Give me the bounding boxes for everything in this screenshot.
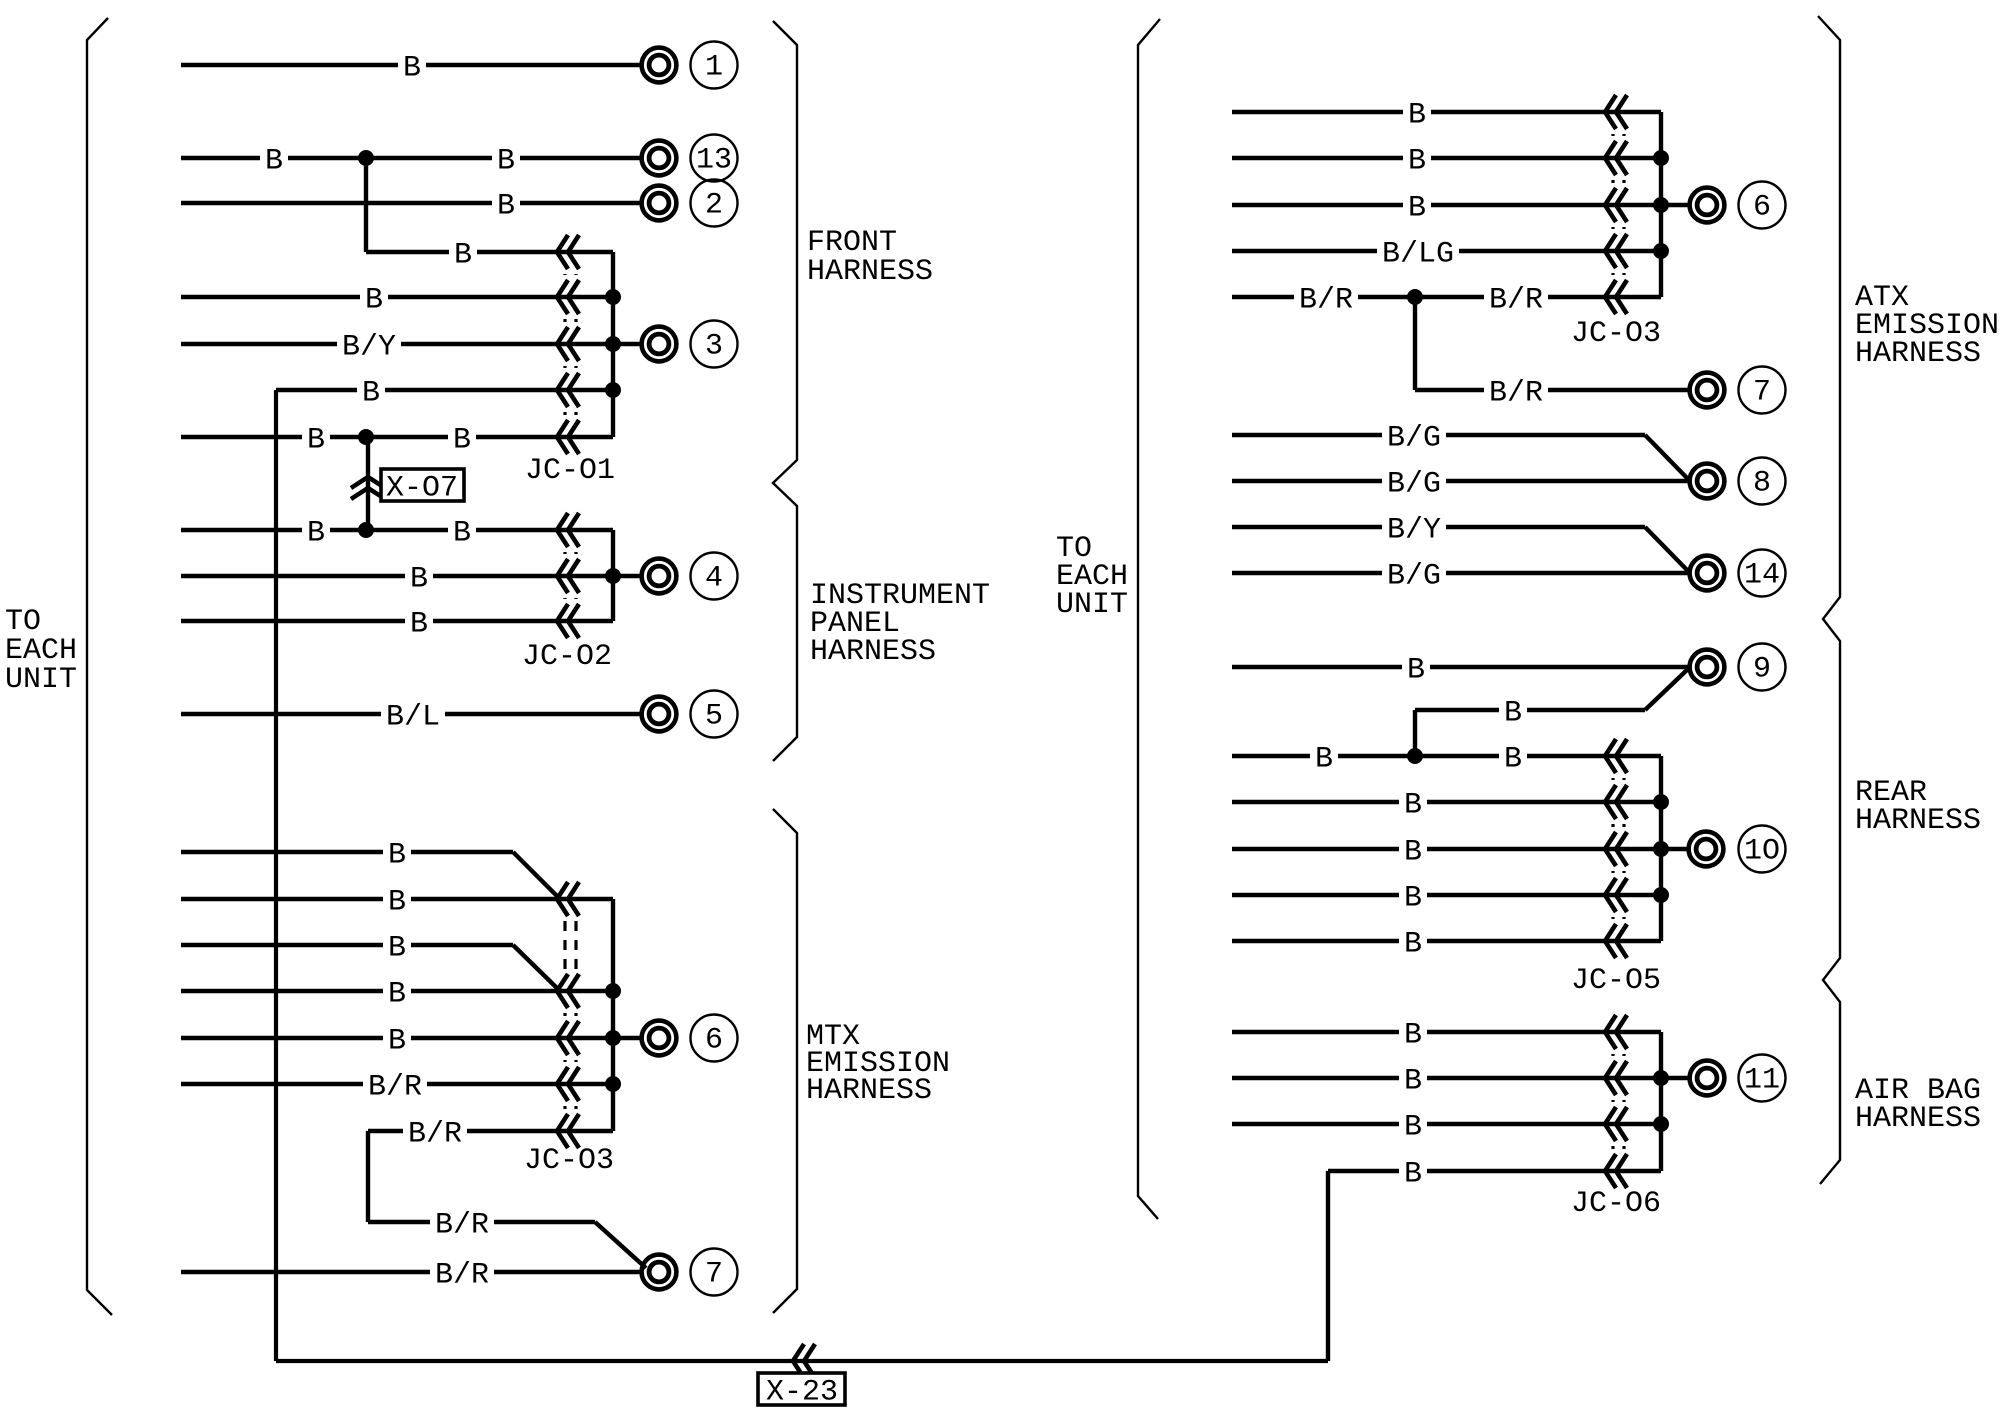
label PANEL — [810, 607, 900, 641]
svg-text:B: B — [362, 376, 380, 410]
JC-03 ATX wire entry chevron y=158 — [1605, 141, 1627, 175]
JC-03 bus junction — [605, 1076, 621, 1092]
wire B/Y into JC-01 to ground 3 — [181, 330, 641, 364]
JC-05 wire entry chevron y=802 — [1605, 785, 1627, 819]
svg-text:B: B — [497, 144, 515, 178]
JC-03 ATX wire entry chevron y=112 — [1605, 95, 1627, 129]
ground number 2 — [691, 180, 738, 227]
JC-06 bus — [1659, 1032, 1663, 1171]
svg-text:B: B — [1404, 1110, 1422, 1144]
ground connector 9 — [1690, 650, 1725, 685]
diagonal wire into ground 8 — [1645, 435, 1688, 479]
JC-02 connector dashed body — [565, 552, 576, 599]
label JC-01 — [525, 454, 615, 488]
svg-text:B: B — [307, 516, 325, 550]
ground number 5 — [691, 691, 738, 738]
svg-text:B: B — [1504, 742, 1522, 776]
label MTX — [806, 1020, 860, 1054]
junction node on B wire (rear) — [1407, 748, 1423, 764]
label ATX — [1855, 281, 1909, 315]
JC-01 wire entry chevron y=297 — [557, 280, 579, 314]
label EMISSION (ATX) — [1855, 309, 1999, 343]
wire B to ground 9 — [1232, 653, 1688, 687]
svg-text:JC-O5: JC-O5 — [1571, 964, 1661, 998]
JC-02 bus — [611, 530, 615, 621]
JC-02 wire entry chevron y=621 — [557, 604, 579, 638]
wire B to ground 9 (bent) — [1415, 696, 1645, 730]
bracket FRONT/INSTRUMENT PANEL harness — [773, 21, 797, 761]
wire B to ground 1 — [181, 51, 640, 85]
svg-text:8: 8 — [1753, 467, 1771, 501]
svg-text:B: B — [1315, 742, 1333, 776]
wire B/Y to ground 14 (bent) — [1232, 513, 1645, 547]
label JC-06 — [1571, 1187, 1661, 1221]
svg-text:HARNESS: HARNESS — [810, 635, 936, 669]
JC-02 wire entry chevron y=530 — [557, 513, 579, 547]
svg-text:B/Y: B/Y — [1387, 513, 1441, 547]
wire B into JC-03 — [181, 977, 613, 1011]
svg-text:B/R: B/R — [435, 1208, 489, 1242]
JC-03 bus junction — [605, 1030, 621, 1046]
wire B/R vertical to ground 7 ATX — [1413, 297, 1417, 390]
wire B/R into JC-03 — [181, 1070, 613, 1104]
ground number 7 (MTX) — [691, 1249, 738, 1296]
label JC-05 — [1571, 964, 1661, 998]
JC-03 bus junction — [605, 983, 621, 999]
svg-text:B: B — [454, 238, 472, 272]
svg-text:5: 5 — [705, 700, 723, 734]
ground number 7 (ATX) — [1739, 367, 1786, 414]
svg-text:B: B — [388, 1024, 406, 1058]
svg-text:B: B — [365, 283, 383, 317]
wire B into JC-01 (top) — [366, 238, 613, 272]
ground connector 4 — [642, 559, 677, 594]
bottom wire to X-23 — [276, 1359, 1328, 1363]
label HARNESS (MTX) — [806, 1074, 932, 1108]
svg-text:HARNESS: HARNESS — [1855, 337, 1981, 371]
wire B into JC-02 to ground 4 — [181, 562, 641, 596]
JC-03 connector dashed body (right) — [1613, 134, 1624, 275]
JC-03 connector dashed body (left) — [565, 921, 576, 1109]
JC-05 wire entry chevron y=895 — [1605, 878, 1627, 912]
diagonal wire into JC-03 mid — [513, 945, 560, 991]
diagonal wire into ground 9 — [1645, 669, 1688, 710]
svg-text:B: B — [1404, 788, 1422, 822]
svg-text:B: B — [265, 144, 283, 178]
svg-text:6: 6 — [705, 1024, 723, 1058]
wire B/R vertical link to ground 7 branch — [366, 1131, 370, 1222]
JC-06 bus junction — [1653, 1070, 1669, 1086]
svg-text:1: 1 — [705, 51, 723, 85]
JC-03 wire entry chevron y=1084 — [557, 1067, 579, 1101]
JC-01 bus junction — [605, 336, 621, 352]
label AIR BAG — [1855, 1074, 1981, 1108]
JC-01 wire entry chevron y=437 — [557, 420, 579, 454]
JC-01 bus junction — [605, 289, 621, 305]
wire B/R into JC-03 ATX (bottom) — [1232, 283, 1661, 317]
wire B into JC-06 to ground 11 — [1232, 1064, 1688, 1098]
svg-text:B/R: B/R — [408, 1117, 462, 1151]
svg-text:HARNESS: HARNESS — [807, 255, 933, 289]
label TO (left) — [5, 605, 41, 639]
JC-05 bus junction — [1653, 841, 1669, 857]
wire B into JC-01 (bottom) via X-07 node — [181, 423, 613, 457]
ground connector 6 (MTX) — [642, 1021, 677, 1056]
svg-text:B/R: B/R — [368, 1070, 422, 1104]
JC-01 bus junction — [605, 382, 621, 398]
svg-text:14: 14 — [1744, 559, 1780, 593]
ground number 9 — [1739, 644, 1786, 691]
JC-06 wire entry chevron y=1078 — [1605, 1061, 1627, 1095]
svg-text:B/R: B/R — [1489, 376, 1543, 410]
wire from node 13 down to JC-01 branch — [364, 158, 368, 252]
ground number 10 — [1739, 826, 1786, 873]
wire X-07 vertical link — [366, 437, 370, 530]
bracket MTX EMISSION harness — [773, 809, 797, 1313]
svg-text:B: B — [453, 516, 471, 550]
ground number 1 — [691, 42, 738, 89]
svg-text:B: B — [1404, 927, 1422, 961]
svg-text:HARNESS: HARNESS — [806, 1074, 932, 1108]
ground number 3 — [691, 321, 738, 368]
svg-text:3: 3 — [705, 330, 723, 364]
JC-03 bus (right) — [1659, 112, 1663, 297]
svg-text:B: B — [1404, 1064, 1422, 1098]
svg-text:B: B — [388, 838, 406, 872]
wire B into JC-03 to ground 6 — [181, 1024, 641, 1058]
diagonal wire into JC-03 top — [513, 852, 560, 899]
vertical link wire to node — [1413, 710, 1417, 756]
JC-03 bus (left) — [611, 899, 615, 1131]
svg-text:JC-O6: JC-O6 — [1571, 1187, 1661, 1221]
JC-03 wire entry chevron y=991 — [557, 974, 579, 1008]
svg-text:JC-O1: JC-O1 — [525, 454, 615, 488]
svg-text:JC-O3: JC-O3 — [524, 1144, 614, 1178]
wire B/R toward ground 7 — [368, 1208, 595, 1242]
svg-text:HARNESS: HARNESS — [1855, 804, 1981, 838]
wire B into JC-02 (bottom) — [181, 607, 613, 641]
wire B into JC-06 (top) — [1232, 1018, 1661, 1052]
junction node on wire 13 — [358, 150, 374, 166]
JC-05 wire entry chevron y=849 — [1605, 832, 1627, 866]
svg-text:HARNESS: HARNESS — [1855, 1102, 1981, 1136]
JC-03 wire entry chevron y=899 — [557, 882, 579, 916]
connector label X-23 — [758, 1373, 845, 1408]
svg-text:B/R: B/R — [1489, 283, 1543, 317]
svg-text:7: 7 — [1753, 376, 1771, 410]
JC-06 wire entry chevron y=1032 — [1605, 1015, 1627, 1049]
left bracket (TO EACH UNIT, right section) — [1138, 19, 1160, 1219]
ground connector 13 — [642, 141, 677, 176]
label EACH (right) — [1056, 560, 1128, 594]
svg-text:11: 11 — [1744, 1064, 1780, 1098]
wire B/R into JC-03 (bottom) — [368, 1117, 613, 1151]
JC-03 wire entry chevron y=1038 — [557, 1021, 579, 1055]
wire link from JC-06 to X-23 wire — [1326, 1171, 1330, 1361]
label EACH (left) — [5, 634, 77, 668]
wire B into JC-05 (bottom) — [1232, 927, 1661, 961]
ground number 6 (MTX) — [691, 1015, 738, 1062]
wire B/R to ground 7 — [181, 1258, 640, 1292]
svg-text:6: 6 — [1753, 191, 1771, 225]
wire B to ground 2 — [181, 189, 640, 223]
label HARNESS (air bag) — [1855, 1102, 1981, 1136]
wire B into JC-06 (bottom) — [1328, 1157, 1661, 1191]
svg-text:B/L: B/L — [386, 700, 440, 734]
X-23 connector chevron — [793, 1344, 815, 1378]
wire B into JC-05 to ground 10 — [1232, 835, 1688, 869]
wire B/G to ground 8 — [1232, 467, 1688, 501]
label UNIT (left) — [5, 663, 77, 697]
label JC-03 (right) — [1571, 317, 1661, 351]
ground connector 8 — [1690, 464, 1725, 499]
svg-text:B: B — [388, 931, 406, 965]
label JC-03 (left) — [524, 1144, 614, 1178]
JC-01 bus — [611, 252, 615, 437]
wire B into JC-03 ATX (top) — [1232, 98, 1661, 132]
JC-03 ATX wire entry chevron y=205 — [1605, 188, 1627, 222]
ground number 6 (ATX) — [1739, 182, 1786, 229]
ground connector 2 — [642, 186, 677, 221]
svg-text:B: B — [1407, 653, 1425, 687]
JC-05 bus junction — [1653, 887, 1669, 903]
wire B to ground 13 — [181, 144, 640, 178]
svg-text:B/Y: B/Y — [342, 330, 396, 364]
ground connector 5 — [642, 697, 677, 732]
ground number 11 — [1739, 1055, 1786, 1102]
ground connector 6 (ATX) — [1690, 188, 1725, 223]
JC-03 ATX bus junction — [1653, 243, 1669, 259]
ground connector 3 — [642, 327, 677, 362]
wire B into JC-02 (top) — [181, 516, 613, 550]
svg-text:1O: 1O — [1744, 835, 1780, 869]
wire B into JC-03 ATX to ground 6 — [1232, 191, 1688, 225]
wire B/LG into JC-03 ATX — [1232, 237, 1661, 271]
svg-text:X-O7: X-O7 — [386, 471, 458, 505]
svg-text:X-23: X-23 — [766, 1375, 838, 1408]
diagonal wire into ground 14 — [1645, 527, 1688, 571]
label FRONT — [807, 226, 897, 260]
svg-text:B: B — [1404, 1018, 1422, 1052]
JC-01 wire entry chevron y=252 — [557, 235, 579, 269]
svg-text:B: B — [410, 607, 428, 641]
wire B/G to ground 8 (bent) — [1232, 421, 1645, 455]
svg-text:B/G: B/G — [1387, 559, 1441, 593]
svg-text:UNIT: UNIT — [5, 663, 77, 697]
label HARNESS (front) — [807, 255, 933, 289]
JC-03 ATX bus junction — [1653, 197, 1669, 213]
svg-text:B: B — [1404, 1157, 1422, 1191]
svg-text:B/LG: B/LG — [1382, 237, 1454, 271]
svg-text:B/R: B/R — [1299, 283, 1353, 317]
ground number 13 — [691, 135, 738, 182]
label REAR — [1855, 776, 1927, 810]
wire B into JC-01 — [181, 283, 613, 317]
JC-06 wire entry chevron y=1124 — [1605, 1107, 1627, 1141]
wire B into JC-05 — [1232, 788, 1661, 822]
wire B/R to ground 7 ATX — [1415, 376, 1688, 410]
svg-text:B: B — [388, 885, 406, 919]
label UNIT (right) — [1056, 588, 1128, 622]
svg-text:B: B — [403, 51, 421, 85]
svg-text:9: 9 — [1753, 653, 1771, 687]
svg-text:7: 7 — [705, 1258, 723, 1292]
JC-03 ATX bus junction — [1653, 150, 1669, 166]
JC-05 connector dashed body — [1613, 778, 1624, 919]
svg-text:UNIT: UNIT — [1056, 588, 1128, 622]
svg-text:B: B — [453, 423, 471, 457]
JC-02 wire entry chevron y=576 — [557, 559, 579, 593]
JC-05 bus junction — [1653, 794, 1669, 810]
svg-text:B/R: B/R — [435, 1258, 489, 1292]
junction node on B/R wire — [1407, 289, 1423, 305]
svg-text:B: B — [1408, 98, 1426, 132]
wire B into JC-03 (bent 2) — [181, 931, 513, 965]
ground connector 14 — [1690, 556, 1725, 591]
ground connector 10 — [1689, 832, 1724, 867]
label TO (right) — [1056, 532, 1092, 566]
JC-02 bus junction — [605, 568, 621, 584]
svg-text:B/G: B/G — [1387, 467, 1441, 501]
JC-06 wire entry chevron y=1171 — [1605, 1154, 1627, 1188]
svg-text:B: B — [388, 977, 406, 1011]
ground number 4 — [691, 553, 738, 600]
label INSTRUMENT — [810, 579, 990, 613]
svg-text:B: B — [1504, 696, 1522, 730]
svg-text:B: B — [410, 562, 428, 596]
junction node below X-07 — [358, 522, 374, 538]
label HARNESS (instrument panel) — [810, 635, 936, 669]
svg-text:4: 4 — [705, 562, 723, 596]
ground connector 7 (MTX) — [642, 1255, 677, 1290]
ground connector 11 — [1690, 1061, 1725, 1096]
JC-03 ATX wire entry chevron y=251 — [1605, 234, 1627, 268]
ground connector 7 (ATX) — [1690, 373, 1725, 408]
wire B/G to ground 14 — [1232, 559, 1688, 593]
bracket ATX/REAR/AIR BAG harness — [1818, 16, 1840, 1184]
JC-03 ATX wire entry chevron y=297 — [1605, 280, 1627, 314]
svg-text:13: 13 — [696, 144, 732, 178]
svg-text:B: B — [497, 189, 515, 223]
JC-03 wire entry chevron y=1131 — [557, 1114, 579, 1148]
svg-text:JC-O3: JC-O3 — [1571, 317, 1661, 351]
svg-text:B: B — [307, 423, 325, 457]
wire B into JC-05 — [1232, 881, 1661, 915]
label EMISSION (MTX) — [806, 1047, 950, 1081]
wire B into JC-03 (top row) — [181, 885, 613, 919]
wire B into JC-06 — [1232, 1110, 1661, 1144]
ground connector 1 — [642, 48, 677, 83]
ground number 14 — [1739, 550, 1786, 597]
svg-text:B/G: B/G — [1387, 421, 1441, 455]
wire B into JC-03 ATX — [1232, 144, 1661, 178]
wire B into JC-01 from main vertical — [276, 376, 613, 410]
JC-01 wire entry chevron y=344 — [557, 327, 579, 361]
main ground vertical wire — [274, 390, 278, 1361]
left bracket (TO EACH UNIT, left section) — [87, 18, 112, 1315]
X-07 connector chevron — [351, 477, 385, 499]
svg-text:JC-O2: JC-O2 — [522, 640, 612, 674]
JC-05 bus — [1659, 756, 1663, 941]
JC-06 bus junction — [1653, 1116, 1669, 1132]
diagonal wire into ground 7 — [595, 1222, 646, 1268]
JC-01 wire entry chevron y=390 — [557, 373, 579, 407]
svg-text:B: B — [1404, 835, 1422, 869]
svg-text:B: B — [1408, 144, 1426, 178]
wire B into JC-05 (top) — [1232, 742, 1661, 776]
label JC-02 — [522, 640, 612, 674]
ground number 8 — [1739, 458, 1786, 505]
wire B/L to ground 5 — [181, 700, 640, 734]
svg-text:B: B — [1404, 881, 1422, 915]
label HARNESS (ATX) — [1855, 337, 1981, 371]
svg-text:B: B — [1408, 191, 1426, 225]
label HARNESS (rear) — [1855, 804, 1981, 838]
svg-text:2: 2 — [705, 189, 723, 223]
JC-01 connector dashed body — [565, 274, 576, 415]
junction node above X-07 — [358, 429, 374, 445]
JC-06 connector dashed body — [1613, 1054, 1624, 1149]
wire B into JC-03 (bent) — [181, 838, 513, 872]
JC-05 wire entry chevron y=941 — [1605, 924, 1627, 958]
connector label X-07 — [381, 469, 464, 505]
JC-05 wire entry chevron y=756 — [1605, 739, 1627, 773]
